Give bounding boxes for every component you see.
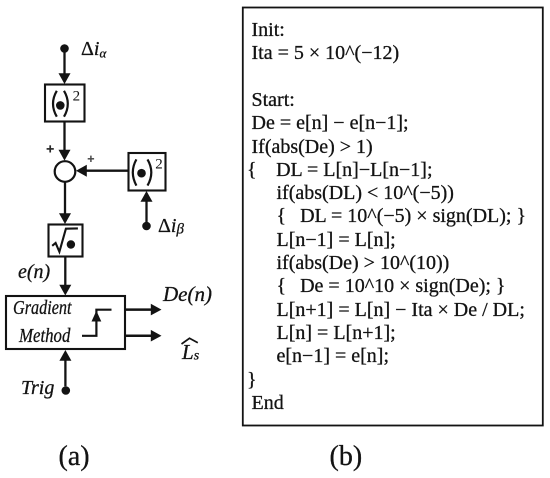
pseudocode line 11 inner De assign	[277, 275, 506, 298]
node input beta dot	[142, 222, 151, 231]
label (b)	[330, 441, 363, 473]
pseudocode line 12 L[n+1]	[277, 299, 525, 322]
pseudocode line 5 If(abs)	[252, 136, 373, 159]
output arrow Ls	[125, 330, 161, 342]
pseudocode outer box	[243, 8, 543, 426]
pseudocode line 2 Ita	[252, 42, 400, 65]
pseudocode line 4 De=	[252, 112, 409, 135]
pseudocode line 16 End	[252, 392, 284, 415]
node trig dot	[62, 386, 71, 395]
wire squarer to summing junction	[59, 122, 71, 161]
wire from alpha dot to squarer box	[59, 52, 71, 84]
label delta i alpha	[81, 38, 106, 62]
sqrt block	[49, 225, 83, 257]
pseudocode line 7 if(abs(DL))	[277, 182, 454, 205]
wire summing junction to sqrt block	[59, 182, 71, 224]
pseudocode line 1 Init:	[252, 19, 285, 42]
squarer block (.)^2 top	[45, 85, 85, 122]
label (a)	[59, 441, 90, 473]
label De(n)	[163, 282, 212, 307]
wire squarer2 to summing junction	[76, 165, 129, 177]
squarer block (.)^2 right	[129, 153, 166, 191]
gradient method block	[6, 296, 125, 349]
hat over L	[182, 338, 198, 344]
wire sqrt block to gradient method block	[59, 257, 71, 296]
pseudocode line 13 L[n]	[277, 322, 396, 345]
svg-text:2: 2	[155, 157, 163, 173]
pseudocode line 3 Start:	[252, 89, 295, 112]
pseudocode line 6 open brace DL	[247, 159, 433, 182]
plus sign right of summing junction	[88, 156, 94, 162]
pseudocode line 15 close brace	[247, 369, 257, 392]
label L hat s	[182, 340, 199, 365]
wire beta dot to squarer2	[141, 191, 153, 223]
label delta i beta	[158, 215, 184, 239]
output arrow De(n)	[125, 304, 161, 316]
label Gradient	[13, 297, 71, 320]
wire trig dot to gradient block	[59, 350, 71, 386]
svg-text:2: 2	[73, 89, 81, 105]
label e(n)	[18, 261, 50, 284]
pseudocode line 10 if(abs(De))	[277, 252, 450, 275]
plus sign left of summing junction	[47, 145, 54, 152]
summing junction circle	[55, 161, 76, 182]
pseudocode line 9 L[n-1]	[277, 229, 396, 252]
pseudocode line 14 e[n-1]	[277, 345, 390, 368]
node input alpha dot	[60, 44, 69, 53]
pseudocode line 8 inner DL assign	[277, 205, 527, 228]
step symbol inside gradient block	[82, 310, 112, 336]
label Trig	[21, 377, 54, 400]
label Method	[19, 325, 70, 348]
